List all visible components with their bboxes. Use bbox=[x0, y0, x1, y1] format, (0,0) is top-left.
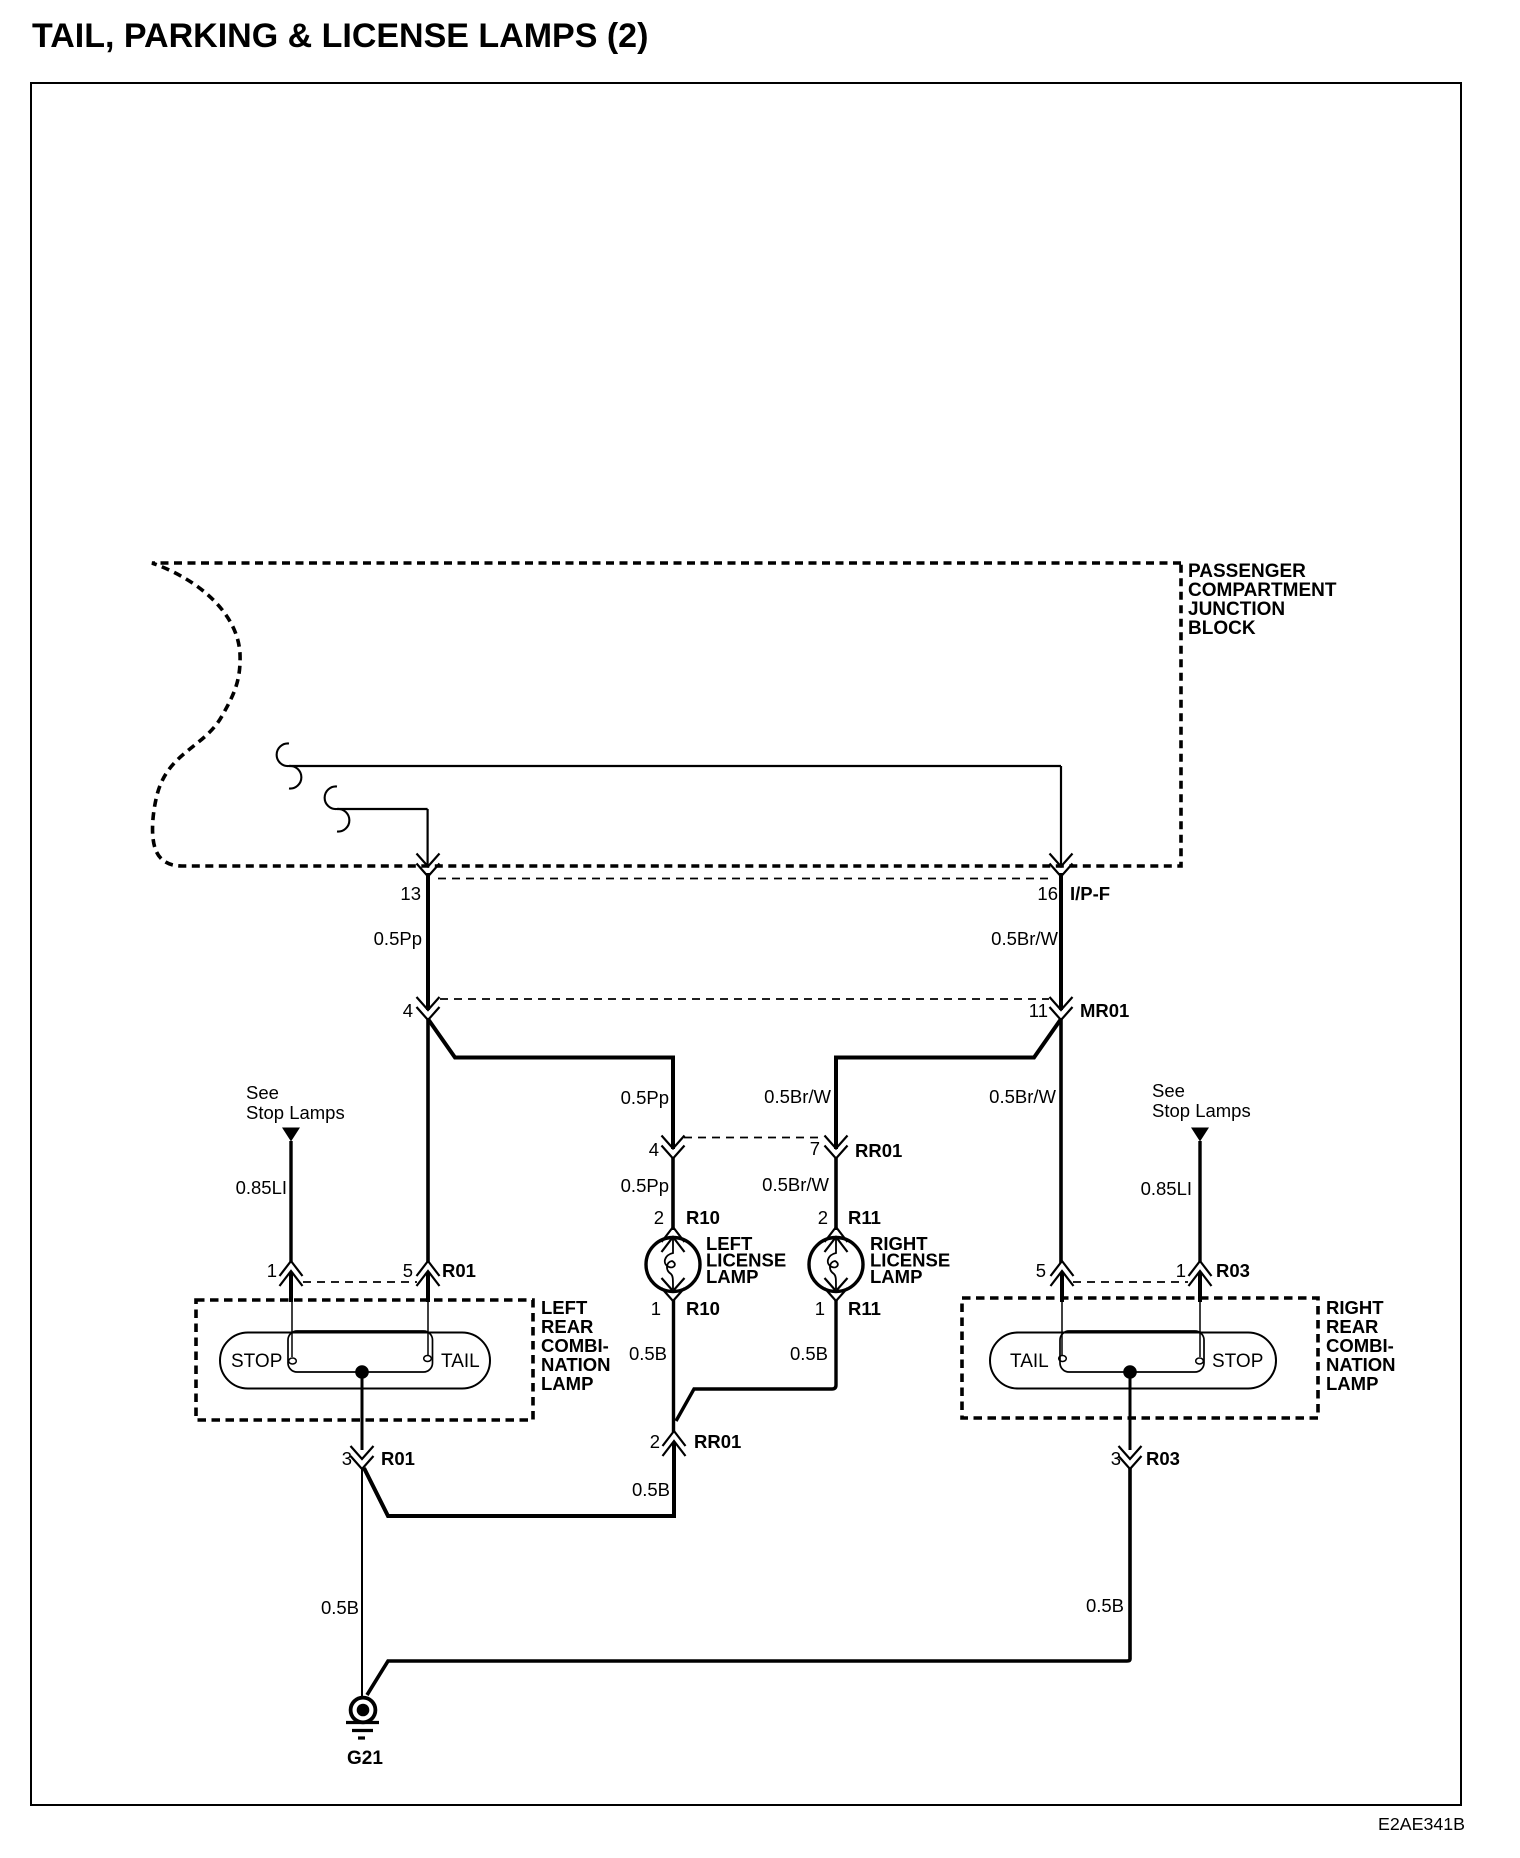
svg-text:RR01: RR01 bbox=[694, 1431, 741, 1452]
svg-text:R10: R10 bbox=[686, 1298, 720, 1319]
dashed connector line 4-11 bbox=[440, 998, 1049, 1000]
right lamp inner element bbox=[1060, 1331, 1204, 1372]
left rear combination lamp dashed box bbox=[196, 1300, 533, 1420]
left lamp housing stadium bbox=[220, 1333, 490, 1389]
wire 0.5B right to ground bbox=[367, 1468, 1130, 1695]
svg-text:E2AE341B: E2AE341B bbox=[1378, 1814, 1465, 1834]
stop lamps arrow left bbox=[282, 1128, 300, 1142]
svg-text:3: 3 bbox=[342, 1448, 352, 1469]
connector R11 pin 2 chevrons bbox=[825, 1227, 848, 1252]
svg-text:11: 11 bbox=[1029, 1000, 1048, 1021]
wire 0.5B left license down bbox=[672, 1300, 675, 1432]
connector R03 pin 1 chevrons bbox=[1189, 1261, 1212, 1286]
connector MR01 pin 11 chevrons bbox=[1050, 997, 1073, 1020]
connector pin 16 chevrons bbox=[1050, 854, 1073, 877]
svg-text:1: 1 bbox=[267, 1260, 277, 1281]
wire 0.5Br/W MR01-11 to R03-5 bbox=[1059, 1018, 1063, 1263]
dashed connector line 4-7 RR01 bbox=[684, 1137, 824, 1139]
stop lamps arrow right bbox=[1191, 1128, 1209, 1142]
svg-text:0.5Pp: 0.5Pp bbox=[621, 1087, 669, 1108]
dashed connector line 1-5 R01 bbox=[303, 1281, 417, 1283]
connector R01 pin 3 chevrons bbox=[351, 1446, 374, 1469]
wire right lamp common to R03-3 bbox=[1129, 1372, 1132, 1450]
svg-text:0.5Br/W: 0.5Br/W bbox=[764, 1086, 831, 1107]
wire stub below R01-5 bbox=[426, 1272, 430, 1302]
svg-text:3: 3 bbox=[1111, 1448, 1121, 1469]
svg-text:0.5Br/W: 0.5Br/W bbox=[762, 1174, 829, 1195]
wire into STOP terminal left bbox=[291, 1302, 293, 1357]
svg-text:TAIL: TAIL bbox=[441, 1351, 480, 1372]
wire 0.5B RR01-2 to R01-3 bbox=[364, 1443, 674, 1516]
connector R03 pin 3 chevrons bbox=[1119, 1446, 1142, 1469]
wire into TAIL terminal right bbox=[1061, 1302, 1063, 1355]
svg-text:4: 4 bbox=[649, 1139, 659, 1160]
svg-text:2: 2 bbox=[654, 1207, 664, 1228]
ground G21 symbol bbox=[346, 1698, 379, 1738]
svg-text:5: 5 bbox=[403, 1260, 413, 1281]
connector R03 pin 5 chevrons bbox=[1051, 1261, 1074, 1286]
svg-text:0.5Pp: 0.5Pp bbox=[374, 928, 422, 949]
connector R01 pin 5 chevrons bbox=[417, 1261, 440, 1286]
wire hook1 to I/P-F horizontal bbox=[289, 765, 1061, 767]
left license lamp bulb circle bbox=[646, 1238, 700, 1292]
wire 0.5B right license down-merge bbox=[676, 1300, 836, 1421]
right license lamp filament bbox=[828, 1239, 838, 1289]
svg-text:R11: R11 bbox=[848, 1207, 881, 1228]
wire 0.85LI left bbox=[289, 1141, 292, 1263]
right rear combination lamp dashed box bbox=[962, 1298, 1318, 1418]
wire 0.5Pp RR01-4 to R10-2 bbox=[671, 1157, 675, 1230]
wire 0.5Pp MR01-4 to R01-5 bbox=[426, 1018, 430, 1263]
wire left lamp common to R01-3 bbox=[361, 1372, 364, 1450]
svg-text:0.5B: 0.5B bbox=[1086, 1595, 1124, 1616]
connector RR01 pin 2 chevrons bbox=[663, 1431, 686, 1456]
dashed connector line 5-1 R03 bbox=[1073, 1281, 1188, 1283]
continuation hook upper wire bbox=[277, 743, 302, 788]
right lamp housing stadium bbox=[990, 1333, 1276, 1389]
svg-text:R03: R03 bbox=[1146, 1448, 1180, 1469]
svg-text:RR01: RR01 bbox=[855, 1140, 902, 1161]
svg-text:R01: R01 bbox=[442, 1260, 476, 1281]
connector R10 pin 1 chevrons bbox=[662, 1278, 685, 1301]
svg-text:0.5Pp: 0.5Pp bbox=[621, 1175, 669, 1196]
left lamp TAIL terminal bbox=[424, 1356, 432, 1362]
svg-text:2: 2 bbox=[818, 1207, 828, 1228]
svg-text:G21: G21 bbox=[347, 1748, 383, 1769]
svg-text:0.85LI: 0.85LI bbox=[1141, 1178, 1192, 1199]
svg-text:TAIL: TAIL bbox=[1010, 1351, 1049, 1372]
svg-text:TAIL, PARKING & LICENSE LAMPS: TAIL, PARKING & LICENSE LAMPS (2) bbox=[32, 17, 648, 55]
svg-text:1: 1 bbox=[815, 1298, 825, 1319]
wire down to pin 13 bbox=[427, 809, 429, 866]
right lamp junction dot bbox=[1123, 1365, 1137, 1379]
svg-text:STOP: STOP bbox=[1212, 1351, 1263, 1372]
svg-text:16: 16 bbox=[1037, 883, 1058, 904]
svg-text:R10: R10 bbox=[686, 1207, 720, 1228]
wire into STOP terminal right bbox=[1199, 1302, 1201, 1357]
connector R01 pin 1 chevrons bbox=[280, 1261, 303, 1286]
right license lamp bulb circle bbox=[809, 1238, 863, 1292]
connector RR01 pin 7 chevrons bbox=[825, 1136, 848, 1159]
wire branch right license feed bbox=[836, 1019, 1061, 1149]
right lamp STOP terminal bbox=[1196, 1358, 1204, 1364]
svg-text:4: 4 bbox=[403, 1000, 413, 1021]
continuation hook lower wire bbox=[325, 786, 350, 831]
connector RR01 pin 4 chevrons bbox=[662, 1136, 685, 1159]
wire down to pin 16 bbox=[1060, 766, 1062, 866]
dashed connector line 13-16 bbox=[438, 878, 1052, 880]
svg-text:0.5B: 0.5B bbox=[790, 1343, 828, 1364]
svg-text:R03: R03 bbox=[1216, 1260, 1250, 1281]
wire hook2 horizontal bbox=[337, 808, 428, 810]
wire 0.5Pp pin13 to MR01-4 bbox=[426, 873, 430, 1010]
svg-text:R01: R01 bbox=[381, 1448, 415, 1469]
wire 0.5Br/W pin16 to MR01-11 bbox=[1059, 873, 1063, 1010]
left license lamp filament bbox=[665, 1239, 675, 1289]
svg-text:0.5Br/W: 0.5Br/W bbox=[989, 1086, 1056, 1107]
svg-text:MR01: MR01 bbox=[1080, 1000, 1129, 1021]
svg-text:I/P-F: I/P-F bbox=[1070, 883, 1110, 904]
connector pin 13 chevrons bbox=[417, 854, 440, 877]
svg-text:2: 2 bbox=[650, 1431, 660, 1452]
right lamp TAIL terminal bbox=[1059, 1356, 1067, 1362]
svg-text:7: 7 bbox=[810, 1138, 820, 1159]
svg-text:0.5B: 0.5B bbox=[321, 1597, 359, 1618]
wire 0.85LI right bbox=[1198, 1141, 1201, 1263]
svg-text:STOP: STOP bbox=[231, 1351, 282, 1372]
left lamp junction dot bbox=[355, 1365, 369, 1379]
connector R11 pin 1 chevrons bbox=[825, 1278, 848, 1301]
svg-text:R11: R11 bbox=[848, 1298, 881, 1319]
svg-text:0.5B: 0.5B bbox=[632, 1479, 670, 1500]
svg-text:0.85LI: 0.85LI bbox=[236, 1177, 287, 1198]
wire 0.5Br/W RR01-7 to R11-2 bbox=[834, 1157, 838, 1230]
wire 0.5B left to ground bbox=[361, 1468, 363, 1698]
svg-text:13: 13 bbox=[400, 883, 421, 904]
passenger compartment junction block dashed outline bbox=[152, 563, 1181, 866]
svg-text:5: 5 bbox=[1036, 1260, 1046, 1281]
wire into TAIL terminal left bbox=[427, 1302, 429, 1355]
svg-text:0.5Br/W: 0.5Br/W bbox=[991, 928, 1058, 949]
wire stub below R01-1 bbox=[289, 1272, 293, 1302]
wire stub below R03-1 bbox=[1198, 1272, 1202, 1302]
svg-text:0.5B: 0.5B bbox=[629, 1343, 667, 1364]
left lamp STOP terminal bbox=[289, 1358, 297, 1364]
left lamp inner element bbox=[288, 1331, 433, 1372]
wire stub below R03-5 bbox=[1060, 1272, 1064, 1302]
wire branch left license feed bbox=[428, 1019, 673, 1149]
connector MR01 pin 4 chevrons bbox=[417, 997, 440, 1020]
svg-text:1: 1 bbox=[1176, 1260, 1186, 1281]
svg-text:1: 1 bbox=[651, 1298, 661, 1319]
connector R10 pin 2 chevrons bbox=[662, 1227, 685, 1252]
